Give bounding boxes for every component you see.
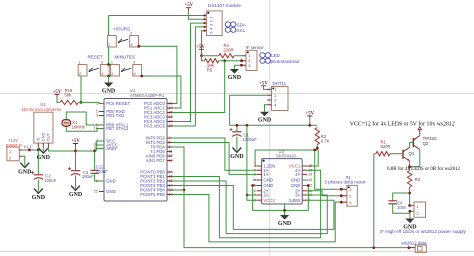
transistor Q1	[403, 147, 415, 161]
wire U1 pin17 to U3 3,4EN	[172, 186, 334, 230]
svg-text:13: 13	[308, 177, 312, 182]
wire U1 pin18 ws2812 data	[172, 190, 409, 248]
svg-text:1: 1	[79, 61, 81, 65]
wire IF pin3 to gnd	[234, 64, 241, 67]
wire to C4	[393, 193, 410, 201]
wire U1 pin5 to U3 1Y	[172, 143, 257, 175]
wire U3 gnd stub	[284, 204, 286, 212]
wire IF signal to U1 pin25	[172, 61, 225, 113]
wire to P2 pin1	[315, 150, 342, 189]
wire connector pin2 to gnd	[22, 156, 25, 161]
+5V supply R19	[53, 90, 62, 98]
ground U3	[278, 212, 292, 227]
svg-text:100n: 100n	[397, 205, 407, 210]
ground C3	[69, 184, 83, 198]
switch S1 HOURS	[108, 27, 139, 48]
label power in	[6, 142, 22, 147]
svg-text:820R: 820R	[381, 144, 391, 149]
svg-text:DHT11: DHT11	[273, 81, 287, 86]
svg-text:VCC=12 for 4x LEDS or 5V for 1: VCC=12 for 4x LEDS or 5V for 10x ws2812	[350, 121, 455, 128]
resistor R2 4.7K	[315, 128, 330, 145]
wire U1 pin19 to P2 pin3	[172, 195, 341, 242]
junction	[316, 147, 319, 150]
pins U2 IN GND OUT	[36, 133, 51, 148]
transistor Q2 TIP42C	[413, 136, 420, 150]
wire Q2 emitter to VCC	[419, 134, 421, 137]
junction	[107, 75, 110, 78]
wire R19 to U1 pin1 RESET	[78, 102, 104, 103]
switch S2 RESET	[78, 55, 109, 77]
wire U1 pin6 down	[172, 147, 184, 190]
junction	[408, 165, 411, 168]
wire +5V stub2	[75, 147, 77, 152]
wire U1 pin4 to U3 1A	[172, 138, 257, 170]
svg-text:4Y: 4Y	[295, 172, 300, 177]
pins +12V connector	[9, 149, 22, 161]
svg-text:PB7 XTAL2: PB7 XTAL2	[106, 126, 129, 131]
wire U1 pin15 to U3 4A	[172, 170, 321, 238]
wire +5V stub	[309, 117, 311, 125]
wire to hours switch pin1	[108, 16, 110, 36]
junction	[93, 150, 96, 153]
junction	[183, 189, 186, 192]
svg-text:2: 2	[349, 194, 351, 199]
label 3 phases delta motor	[325, 180, 367, 185]
wire crystal top to XTAL1	[66, 112, 104, 125]
wire minutes stubs	[109, 65, 112, 77]
svg-text:RESET: RESET	[88, 55, 104, 60]
junction	[240, 64, 243, 67]
junction	[74, 150, 77, 153]
wire DS1307 pin4 SCL to U1 pin28	[172, 27, 203, 126]
supply VCC arrow	[418, 127, 422, 135]
svg-text:DS1307 module: DS1307 module	[208, 3, 241, 8]
svg-text:PC5 ADC5: PC5 ADC5	[144, 124, 165, 129]
label +12V	[8, 138, 18, 143]
wire DHT pin2 data	[230, 95, 267, 125]
svg-text:GND: GND	[18, 169, 32, 175]
label ws2812 data	[402, 240, 427, 245]
wire +5V to R19	[57, 98, 60, 102]
wire R3 bottom down	[409, 187, 411, 206]
svg-text:3: 3	[248, 63, 250, 68]
label U2	[40, 102, 46, 107]
svg-text:GND: GND	[228, 75, 242, 81]
svg-text:SCL: SCL	[237, 28, 246, 33]
svg-text:6.8R for 4x LEDS or 0R for ws2: 6.8R for 4x LEDS or 0R for ws2812	[387, 167, 461, 172]
capacitor C3 100uF	[68, 167, 94, 179]
wire DS1307 pin1 to switches	[109, 15, 204, 17]
wire R2 net to U3 1,2EN	[255, 150, 317, 166]
svg-text:3: 3	[349, 200, 351, 205]
svg-text:4.7K: 4.7K	[321, 138, 330, 143]
motor driver U3 SN754410	[254, 149, 314, 204]
svg-text:1Y: 1Y	[263, 172, 268, 177]
sensor DHT11	[267, 81, 288, 111]
note VCC=12	[350, 121, 455, 128]
svg-text:phototransistor: phototransistor	[271, 59, 301, 64]
svg-text:4* High eff LEDs or ws2812 pow: 4* High eff LEDs or ws2812 power supply	[380, 229, 467, 234]
svg-text:13: 13	[169, 158, 173, 163]
svg-text:GND: GND	[230, 154, 244, 160]
wire C2 to gnd	[37, 180, 39, 188]
svg-text:power in: power in	[6, 142, 22, 147]
sheet frame horizontal line 2	[0, 250, 474, 252]
junction	[28, 149, 31, 152]
junction	[80, 101, 83, 104]
wire to R5	[202, 56, 205, 61]
svg-text:PC6 RESET: PC6 RESET	[106, 101, 130, 106]
svg-text:SN754410: SN754410	[276, 154, 296, 159]
+5V supply DS1307	[184, 3, 193, 11]
svg-text:GND: GND	[263, 183, 273, 188]
wire U3 3Y to P2 pin2	[307, 191, 341, 196]
wire R1 node down to data line	[373, 154, 375, 248]
resistor R1 820R	[376, 140, 391, 156]
svg-text:4: 4	[134, 72, 136, 76]
wire U2 IN stub	[37, 147, 39, 150]
junction	[308, 124, 311, 127]
wire to U3 VCC1	[307, 150, 318, 166]
wire reset switch down	[80, 76, 82, 102]
wire DS1307 pin3 SDA to U1 pin27	[172, 23, 203, 121]
ground power connector	[18, 162, 32, 176]
junction	[408, 204, 411, 207]
wire hours to U1 pin23	[139, 46, 177, 103]
junction	[340, 201, 343, 204]
junction	[37, 149, 40, 152]
wire crystal bottom to XTAL2	[66, 126, 104, 131]
wire Q1 collector to Q2 base	[409, 143, 411, 148]
svg-text:16MHz: 16MHz	[72, 124, 85, 129]
connector DS1307 module	[206, 3, 241, 36]
crystal X1 16MHz	[62, 120, 85, 130]
wire R4 leads	[202, 55, 242, 57]
junction	[240, 59, 243, 62]
svg-text:100uF: 100uF	[82, 174, 94, 179]
svg-text:VCC2: VCC2	[263, 198, 275, 203]
+5V supply DHT11	[259, 81, 268, 86]
svg-text:R3: R3	[415, 177, 421, 182]
dc-dc converter U2	[34, 112, 53, 143]
svg-text:GND: GND	[263, 178, 273, 183]
svg-text:IF sensor: IF sensor	[246, 45, 265, 50]
capacitor C1 1000uF	[230, 128, 258, 142]
svg-text:PCINT5 PB5: PCINT5 PB5	[140, 192, 165, 197]
wire U3 right GND	[285, 180, 309, 210]
wire Q1 emitter down	[409, 161, 411, 171]
svg-text:MINUTES: MINUTES	[115, 55, 136, 60]
label TIP42C	[423, 136, 438, 141]
svg-text:PD1 TXD: PD1 TXD	[106, 113, 124, 118]
svg-text:3: 3	[96, 113, 98, 118]
svg-text:22: 22	[94, 189, 98, 194]
ground C1	[230, 146, 244, 160]
ground under buttons	[102, 80, 116, 95]
+5V supply R4	[196, 45, 205, 51]
junction	[140, 75, 143, 78]
wire DS1307 pin5 down to +5V node	[202, 31, 204, 56]
ground C4	[403, 216, 417, 231]
junction	[408, 192, 411, 195]
junction	[236, 124, 239, 127]
resistor R5 10K	[204, 59, 218, 73]
svg-text:220R: 220R	[224, 47, 234, 52]
svg-text:1000uF: 1000uF	[243, 137, 258, 142]
label P2	[346, 175, 352, 180]
svg-text:AIN1 PD7: AIN1 PD7	[146, 158, 166, 163]
junction	[283, 209, 286, 212]
wire DHT pin4 to gnd	[265, 105, 268, 109]
label VCC net	[23, 144, 32, 149]
svg-text:ATMEGA328P-PU: ATMEGA328P-PU	[130, 93, 164, 98]
junction	[408, 246, 411, 249]
ground U2	[37, 147, 51, 161]
svg-text:GND: GND	[37, 155, 51, 161]
svg-text:4: 4	[131, 43, 133, 47]
svg-text:Q2: Q2	[423, 141, 429, 146]
wire hours pin2 to minutes pin1	[108, 47, 110, 65]
junction	[409, 210, 412, 213]
net LED cable symbol	[260, 53, 271, 64]
svg-text:4: 4	[101, 72, 103, 76]
pins DS1307	[203, 14, 206, 31]
note power supply	[380, 229, 467, 234]
connector P2 motor	[341, 185, 357, 206]
svg-text:3 phases delta motor: 3 phases delta motor	[325, 180, 367, 185]
svg-text:R5: R5	[207, 67, 213, 72]
junction	[246, 194, 249, 197]
capacitor C4 100n	[389, 201, 407, 210]
sheet frame vertical line	[269, 0, 271, 256]
svg-text:2: 2	[111, 72, 113, 76]
svg-text:1: 1	[417, 204, 419, 209]
ground DHT11	[258, 109, 272, 124]
wire to C11	[94, 151, 96, 170]
svg-text:3: 3	[130, 32, 132, 36]
label 12v-5v mini converter	[21, 107, 62, 112]
sheet frame horizontal line 1	[0, 93, 474, 95]
junction	[372, 246, 375, 249]
svg-text:2: 2	[108, 43, 110, 47]
wire Q2 base	[410, 142, 414, 144]
resistor R19 50k	[60, 88, 78, 105]
wire to C2	[37, 150, 39, 174]
connector ws2812 data	[415, 245, 426, 252]
junction	[107, 63, 110, 66]
svg-text:OUT: OUT	[46, 133, 51, 142]
switch S3 MINUTES	[111, 55, 142, 77]
svg-text:3,4EN: 3,4EN	[288, 198, 300, 203]
wire R1 left	[374, 153, 376, 155]
connector +12V power	[7, 147, 19, 161]
wire C1 bottom	[236, 137, 238, 147]
wire rail to VCC AVCC AREF	[96, 141, 104, 151]
resistor R4 220R	[219, 43, 234, 58]
svg-text:GND: GND	[291, 183, 301, 188]
label SCL	[237, 28, 246, 33]
svg-text:AREF: AREF	[106, 146, 118, 151]
wire power connector pin2 to gnd	[410, 211, 414, 213]
ground C2	[32, 187, 46, 201]
wire C4 to gnd	[393, 204, 410, 216]
svg-text:100uF: 100uF	[44, 178, 56, 183]
svg-text:Q1: Q1	[409, 151, 415, 156]
junction	[200, 54, 203, 57]
wire R5 to IF pin2	[219, 60, 242, 62]
wire to power connector pin1	[410, 205, 414, 207]
svg-text:GND: GND	[291, 178, 301, 183]
svg-text:GND: GND	[102, 89, 116, 95]
svg-text:GND: GND	[32, 195, 46, 201]
svg-text:GND: GND	[258, 118, 272, 124]
op-amp U1 ATMEGA328P-PU	[94, 88, 174, 201]
junction	[138, 45, 141, 48]
svg-text:GND: GND	[69, 192, 83, 198]
label LED	[271, 53, 280, 58]
wire to gnd	[108, 76, 110, 80]
wire C11 to U1 pin8 GND	[95, 173, 104, 181]
pin ws2812 connector	[409, 247, 415, 249]
net SDA/SCL cable symbol	[225, 22, 236, 32]
wire R1 to Q1 base	[390, 153, 403, 155]
junction	[307, 184, 310, 187]
svg-text:LED: LED	[271, 53, 280, 58]
svg-text:1: 1	[349, 187, 351, 192]
wire R2 bottom	[316, 145, 318, 151]
wire Q2 collector down	[410, 149, 420, 166]
wire U1 pin16 to U3 3A	[172, 181, 327, 234]
svg-text:GND: GND	[106, 179, 116, 184]
svg-text:2: 2	[417, 211, 419, 216]
junction	[223, 59, 226, 62]
svg-text:2: 2	[9, 156, 11, 161]
svg-text:GND: GND	[106, 189, 116, 194]
svg-text:50k: 50k	[65, 92, 73, 97]
svg-text:3: 3	[101, 61, 103, 65]
wire +5V to DS1307 pin2	[188, 11, 203, 19]
label SDA	[237, 22, 246, 27]
wire +5V rail left	[48, 147, 96, 151]
svg-text:GND: GND	[278, 221, 292, 227]
svg-text:SDA: SDA	[237, 22, 246, 27]
wire to C3	[75, 151, 77, 170]
wire U3 left GND	[253, 180, 285, 210]
+5V supply rail	[305, 112, 314, 118]
label Q2	[423, 141, 429, 146]
ground IF sensor	[228, 66, 242, 81]
svg-text:1: 1	[274, 87, 276, 92]
svg-text:3: 3	[133, 61, 135, 65]
connector LED power supply	[414, 202, 426, 217]
svg-text:100nF: 100nF	[96, 169, 108, 174]
wire +5V to U3 VCC2	[247, 125, 257, 200]
svg-text:2: 2	[79, 72, 81, 76]
svg-text:HOURS: HOURS	[114, 27, 131, 32]
capacitor C2 100uF	[31, 171, 57, 183]
note 6.8R	[387, 167, 461, 172]
capacitor C11 100nF	[90, 165, 108, 174]
wire minutes to U1 pin24	[142, 76, 181, 108]
svg-text:12v-5v mini converter: 12v-5v mini converter	[21, 107, 62, 112]
junction	[251, 184, 254, 187]
svg-text:1: 1	[96, 101, 98, 106]
wire +5V rail	[230, 124, 318, 126]
wire +12V to U2 IN	[22, 149, 38, 151]
+5V supply left rail	[71, 139, 80, 147]
wire stub to U3 2A	[247, 194, 257, 196]
wire +5V to DHT pin1	[264, 86, 268, 89]
wire C3 to gnd	[75, 176, 77, 185]
junction	[246, 124, 249, 127]
junction	[340, 188, 343, 191]
svg-text:1: 1	[9, 149, 11, 154]
wire C1 top	[236, 125, 238, 131]
junction	[340, 194, 343, 197]
svg-text:VCC: VCC	[23, 144, 32, 149]
resistor R3	[407, 171, 420, 188]
junction	[313, 149, 316, 152]
svg-text:1: 1	[108, 32, 110, 36]
connector IF sensor	[242, 45, 265, 71]
label phototransistor	[271, 59, 301, 64]
